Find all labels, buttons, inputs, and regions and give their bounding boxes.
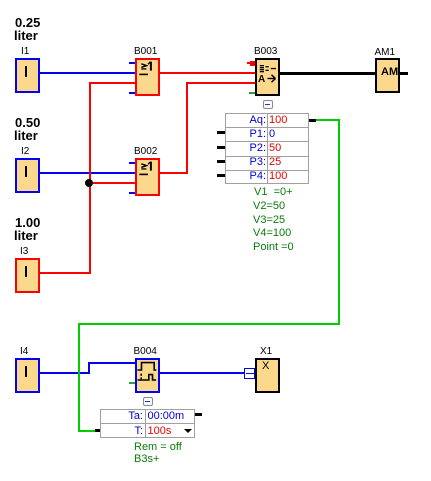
stub B004 in3 (green level)	[129, 382, 135, 384]
stub B003 in4 (green level)	[249, 92, 255, 94]
label I1	[21, 46, 29, 57]
minimize button of B004 parameter box	[143, 397, 153, 406]
wire riser to B003 in3 (red)	[186, 82, 255, 84]
parameter row P3	[225, 156, 266, 168]
parameter row Aq	[225, 114, 266, 126]
input I2	[15, 158, 40, 193]
wire B003 out to AM1 (black analog)	[280, 72, 375, 75]
stub table2 input (black)	[95, 429, 101, 432]
annotation Rem = off	[134, 441, 182, 453]
stub B002 in4 (blue)	[129, 192, 136, 194]
X1 input connector marker	[244, 368, 255, 379]
parameter box B004	[100, 409, 195, 438]
output connector AM1	[375, 58, 400, 93]
label B001	[134, 46, 157, 57]
analog multiplexer B003	[255, 58, 280, 96]
parameter box B003	[225, 113, 310, 184]
annotation "1.00 liter"	[15, 216, 40, 229]
stub B002 in1 (blue)	[129, 162, 136, 164]
icon B002 OR symbol	[135, 158, 160, 196]
annotation V2=50	[253, 200, 285, 212]
wire I4 out horizontal (blue)	[40, 372, 90, 374]
green wire left vertical	[78, 323, 80, 432]
stub table1 P1 (black)	[217, 131, 226, 134]
input I4	[15, 358, 40, 393]
wire I3 vertical riser (red)	[89, 82, 91, 274]
svg-text:A: A	[258, 74, 265, 85]
stub B001 in1 (blue)	[129, 62, 136, 64]
input I3 (active, red)	[15, 258, 40, 293]
annotation "0.50 liter"	[15, 116, 40, 129]
pulse relay B004	[135, 358, 160, 393]
annotation V4=100	[253, 227, 291, 239]
wire B004 out to X1 connector (blue)	[160, 372, 244, 374]
marker B003 in1 high signal (red flag)	[250, 61, 256, 66]
label I3	[20, 246, 28, 257]
label B002	[134, 146, 157, 157]
stub table1 output Aq (black)	[309, 119, 316, 122]
icon B001 OR symbol	[135, 58, 160, 96]
green wire right vertical	[338, 119, 340, 325]
parameter row P1	[225, 128, 266, 140]
label I2	[21, 146, 29, 157]
label X1	[260, 346, 272, 357]
annotation V1 =0+	[254, 186, 293, 198]
wire I3 output horizontal (red)	[40, 272, 90, 274]
input I1	[15, 58, 40, 93]
OR gate B001	[135, 58, 160, 96]
parameter row P4	[225, 170, 266, 182]
label I4	[20, 346, 28, 357]
icon B003 analog multiplexer	[255, 58, 280, 96]
open connector X1	[255, 358, 280, 393]
green parameter wire Aq to T: horizontal top	[315, 119, 340, 121]
wire step to B004 in1 (blue)	[88, 362, 135, 364]
annotation Point =0	[253, 241, 294, 253]
wire riser branch to B002 in3 (red)	[89, 182, 136, 184]
wire B001 out to B003 in2 (red)	[160, 72, 255, 74]
junction node on I3 net	[85, 179, 93, 187]
icon B004 edge-triggered wiping relay	[137, 360, 158, 383]
green wire middle horizontal	[78, 323, 340, 325]
green wire bottom horizontal to table	[78, 430, 95, 433]
parameter row P2	[225, 142, 266, 154]
annotation B3s+	[134, 453, 159, 465]
annotation "0.25 liter"	[15, 16, 40, 29]
wire B002 out horizontal (red)	[160, 172, 187, 174]
wire B002 out vertical riser (red)	[186, 82, 188, 174]
parameter row T	[100, 425, 143, 437]
stub table1 P4 (black)	[217, 174, 226, 177]
stub B001 in4 (blue)	[129, 92, 136, 94]
stub table1 P2 (black)	[217, 146, 226, 149]
label B003	[254, 46, 277, 57]
wire I1 to B001 in2 (blue)	[40, 72, 135, 74]
stub AM1 output (black)	[399, 72, 408, 75]
OR gate B002	[135, 158, 160, 196]
wire riser to B001 in3 (red)	[89, 82, 136, 84]
stub table1 P3 (black)	[217, 160, 226, 163]
stub table2 row Ta output (black)	[195, 413, 203, 416]
wire I2 to B002 in2 (blue)	[40, 172, 135, 174]
wire I4 step vertical (blue)	[88, 362, 90, 374]
minimize button of B003 parameter box	[263, 100, 273, 109]
annotation V3=25	[253, 214, 285, 226]
parameter row Ta	[100, 410, 143, 422]
label B004	[134, 346, 157, 357]
dropdown arrow in row T	[184, 429, 192, 433]
label AM1	[375, 47, 396, 58]
